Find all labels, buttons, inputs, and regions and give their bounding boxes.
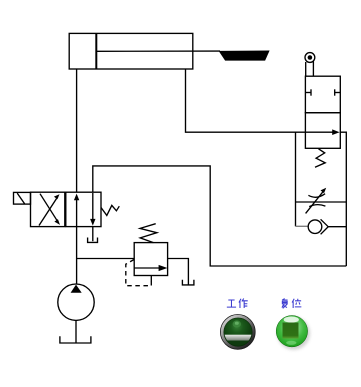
- roller valve U3 box bottom: [305, 113, 340, 149]
- label 复位: [282, 299, 301, 309]
- button 工作 (indicator): [220, 315, 255, 350]
- relief pilot dashed line: [126, 260, 152, 286]
- button 复位 (reset): [276, 316, 310, 350]
- relief valve arrow: [134, 265, 167, 271]
- check valve ball: [308, 220, 322, 234]
- valve V1 left square crossed arrows: [31, 192, 65, 226]
- blade tool: [219, 51, 270, 61]
- pump triangle: [71, 285, 82, 293]
- wire valve P to pump: [76, 227, 78, 285]
- check valve out line: [328, 226, 346, 228]
- valve T port line: [92, 227, 94, 242]
- cylinder body: [69, 33, 193, 69]
- throttle adjust arrow: [306, 188, 327, 214]
- valve V1 right square straight arrows: [66, 192, 101, 226]
- relief valve spring: [140, 224, 157, 243]
- bottom return wire: [93, 166, 346, 266]
- spring below roller valve: [315, 149, 325, 167]
- relief outlet wire: [168, 259, 189, 285]
- wire cylinder cap port to valve A: [76, 69, 78, 192]
- relief drain stub: [150, 276, 152, 282]
- roller actuator: [305, 53, 315, 77]
- pump P1: [58, 284, 94, 320]
- tank symbol at relief outlet: [182, 280, 194, 285]
- cylinder rod: [96, 50, 220, 52]
- tank symbol below pump: [60, 336, 91, 343]
- wire roller valve out down right side: [340, 132, 346, 266]
- check valve seat: [321, 219, 329, 234]
- throttle flow line: [296, 201, 347, 203]
- relief branch wire: [77, 258, 135, 260]
- label 工作: [227, 299, 248, 308]
- relief valve body: [134, 243, 167, 276]
- flow arrow in roller valve: [305, 129, 339, 135]
- wire bypass left vertical: [295, 132, 297, 226]
- blocked port T left: [305, 89, 311, 95]
- wire cylinder rod port to roller valve: [186, 69, 306, 132]
- tank symbol at valve T: [88, 238, 98, 243]
- blocked port T right: [335, 89, 341, 95]
- check valve stub: [296, 225, 309, 227]
- throttle valve arcs: [308, 194, 325, 198]
- cylinder piston: [95, 33, 97, 69]
- roller valve U3 box top: [305, 76, 340, 113]
- pump suction line: [75, 320, 77, 343]
- valve V1 return spring: [101, 205, 119, 215]
- solenoid of valve V1: [14, 192, 31, 204]
